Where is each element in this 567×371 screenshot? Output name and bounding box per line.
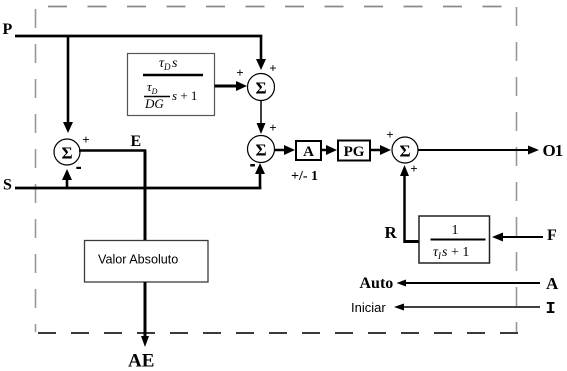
input label S xyxy=(3,177,12,194)
wire S branch up to summer S1 xyxy=(66,180,69,188)
wire Iniciar from input I xyxy=(402,306,540,308)
wire Auto from input A xyxy=(404,282,540,284)
svg-text:s + 1: s + 1 xyxy=(172,88,197,103)
dashed boundary right xyxy=(516,7,518,332)
svg-text:A: A xyxy=(546,274,559,293)
summer S1 xyxy=(54,139,80,165)
svg-text:A: A xyxy=(303,144,314,160)
gain block PG xyxy=(338,141,370,161)
output label AE xyxy=(128,351,154,371)
svg-text:R: R xyxy=(385,223,398,242)
minus sign S2 bottom input xyxy=(250,164,255,167)
wire summer S3 to output O1 xyxy=(418,149,528,151)
svg-text:O1: O1 xyxy=(543,141,563,160)
input label I xyxy=(546,300,556,319)
wire S horizontal xyxy=(15,187,261,190)
svg-text:+: + xyxy=(386,127,393,142)
minus sign S1 bottom input xyxy=(76,167,81,169)
svg-text:Σ: Σ xyxy=(255,79,266,98)
input label A xyxy=(546,274,559,293)
svg-text:F: F xyxy=(547,227,557,244)
wire S end up to summer S2 xyxy=(259,174,262,188)
svg-text:E: E xyxy=(131,133,142,150)
summer S3 xyxy=(392,137,418,163)
gain block A xyxy=(296,141,321,160)
svg-text:Σ: Σ xyxy=(255,141,266,160)
wire summer S4 to summer S2 xyxy=(260,101,262,124)
svg-text:+: + xyxy=(269,120,276,135)
svg-text:Σ: Σ xyxy=(61,144,72,163)
wire gain block PG to summer S3 xyxy=(370,149,380,152)
wire derivative block output to summer S4 xyxy=(215,85,237,88)
svg-text:+: + xyxy=(236,65,243,80)
input label F xyxy=(547,227,557,244)
svg-text:P: P xyxy=(3,21,13,38)
dashed boundary left xyxy=(35,9,37,332)
wire gain block A to gain block PG xyxy=(321,149,326,152)
dashed boundary bottom xyxy=(38,332,519,334)
svg-text:DG: DG xyxy=(144,96,164,111)
wire P branch down to summer S1 xyxy=(67,36,70,122)
signal label Auto xyxy=(360,275,394,292)
svg-text:AE: AE xyxy=(128,351,154,371)
node label R xyxy=(385,223,398,242)
input label P xyxy=(3,21,13,38)
wire F to integrator block xyxy=(503,236,543,238)
integrator block I1 xyxy=(419,216,490,263)
svg-text:Iniciar: Iniciar xyxy=(351,300,386,315)
wire P corner down to summer S4 xyxy=(260,36,263,59)
svg-text:PG: PG xyxy=(344,144,365,160)
svg-text:+: + xyxy=(82,132,89,147)
svg-text:Valor Absoluto: Valor Absoluto xyxy=(98,253,178,267)
derivative block D1 xyxy=(128,54,215,116)
wire E from summer S1 xyxy=(79,149,146,152)
value label +/- 1 xyxy=(291,169,318,184)
dashed boundary top xyxy=(48,6,517,8)
output label O1 xyxy=(543,141,563,160)
absolute value block B1 xyxy=(85,241,209,283)
wire P horizontal xyxy=(15,35,262,38)
svg-text:Auto: Auto xyxy=(360,275,394,292)
svg-text:+/- 1: +/- 1 xyxy=(291,169,318,184)
summer S2 xyxy=(248,136,275,163)
signal label Iniciar xyxy=(351,300,386,315)
svg-text:+: + xyxy=(269,61,276,76)
svg-text:Σ: Σ xyxy=(399,142,410,161)
wire summer S2 to gain block A xyxy=(275,149,285,152)
wire integrator block to summer S3 xyxy=(405,240,420,243)
svg-text:1: 1 xyxy=(452,223,459,238)
wire E down to absolute value block xyxy=(144,151,147,241)
wire absolute value block to AE output xyxy=(144,282,147,337)
svg-text:+: + xyxy=(410,161,417,176)
node label E xyxy=(131,133,142,150)
svg-text:S: S xyxy=(3,177,12,194)
summer S4 xyxy=(248,74,275,101)
svg-text:I: I xyxy=(546,300,556,319)
